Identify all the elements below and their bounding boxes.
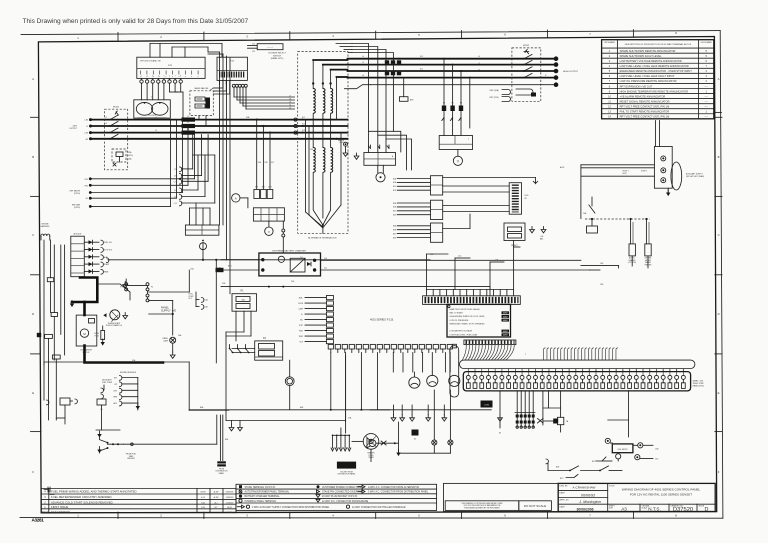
- resistor engine jacket water heater: [645, 244, 652, 268]
- svg-text:4.09: 4.09: [201, 497, 206, 499]
- svg-text:C13: C13: [252, 44, 255, 46]
- svg-text:----: ----: [705, 116, 708, 119]
- svg-text:JCB: JCB: [201, 507, 205, 509]
- svg-text:LOW FUEL LEVEL / FUEL LEAK: LOW FUEL LEVEL / FUEL LEAK: [450, 333, 478, 336]
- svg-text:TEMP: TEMP: [299, 336, 303, 338]
- svg-text:1: 1: [468, 139, 469, 141]
- svg-text:LOW OIL PRESSURE REMOTE ANNUNC: LOW OIL PRESSURE REMOTE ANNUNCIATOR: [620, 79, 677, 83]
- svg-text:ENERGISED / EMER. STOP OPERATE: ENERGISED / EMER. STOP OPERATED: [450, 322, 486, 325]
- fuse below strip: [557, 417, 569, 432]
- svg-text:23 WAY PLUG/SOCKET IN P.C.B.: 23 WAY PLUG/SOCKET IN P.C.B.: [322, 495, 358, 498]
- svg-text:RPT VOLT FREE CONTACT (INTL PI: RPT VOLT FREE CONTACT (INTL PIN 14): [620, 115, 670, 119]
- terminal strip screw squares row: [466, 370, 685, 388]
- svg-text:V: V: [457, 160, 460, 164]
- switch reset pushbutton box: [504, 223, 546, 247]
- svg-text:4: 4: [158, 76, 159, 78]
- wire bus L1: [91, 119, 348, 121]
- svg-text:R2: R2: [452, 103, 454, 105]
- svg-text:----: ----: [705, 85, 708, 88]
- svg-text:L7: L7: [289, 95, 291, 97]
- svg-text:DRN. BY: DRN. BY: [560, 486, 569, 488]
- svg-text:12: 12: [541, 370, 543, 372]
- svg-text:2: 2: [470, 357, 471, 359]
- svg-text:C7C: C7C: [174, 181, 178, 183]
- svg-text:PLUG: PLUG: [95, 335, 100, 337]
- svg-text:OILP: OILP: [299, 342, 303, 344]
- svg-text:R3: R3: [460, 103, 462, 105]
- svg-text:30: 30: [662, 370, 664, 372]
- svg-text:(STUD): (STUD): [74, 193, 80, 195]
- fuse F6 on harness wire: [45, 334, 53, 420]
- wire alternator output L1 to panel: [348, 58, 555, 60]
- svg-text:1: 1: [141, 76, 142, 78]
- svg-text:25: 25: [629, 370, 631, 372]
- svg-text:L3: L3: [155, 130, 157, 132]
- svg-text:18: 18: [582, 370, 584, 372]
- svg-text:LAMP TEST/ HOOT/ FUEL GAUGE: LAMP TEST/ HOOT/ FUEL GAUGE: [450, 308, 481, 311]
- svg-text:VOLTAGE SELECT: VOLTAGE SELECT: [268, 52, 286, 55]
- svg-text:L4: L4: [478, 56, 480, 58]
- wire alternator output L2 to panel: [348, 64, 555, 66]
- wire alternator output L3 to panel: [348, 70, 555, 72]
- svg-text:LOW OIL PRESSURE: LOW OIL PRESSURE: [450, 320, 469, 322]
- svg-text:LS: LS: [100, 409, 103, 411]
- svg-text:5: 5: [706, 50, 708, 53]
- svg-text:LOW BATTERY VOLTAGE: LOW BATTERY VOLTAGE: [450, 330, 473, 333]
- connector RED 10A inside MCB2 zone: [490, 89, 537, 102]
- svg-text:C1A: C1A: [174, 189, 178, 192]
- svg-text:+VE ALARM REMOTE ANNUNCIATOR: +VE ALARM REMOTE ANNUNCIATOR: [620, 94, 666, 98]
- svg-text:C3C: C3C: [655, 459, 659, 461]
- svg-text:3: 3: [44, 496, 46, 499]
- wire duct channel to terminal strip: [460, 360, 695, 368]
- relay P1 box: [232, 290, 257, 312]
- svg-text:LED NUMBER: LED NUMBER: [701, 42, 713, 44]
- wire fuel sender to PCB: [124, 415, 217, 446]
- svg-text:HIGH OUTPUT: HIGH OUTPUT: [563, 71, 579, 73]
- svg-text:HORN: HORN: [298, 303, 304, 305]
- svg-text:14A: 14A: [128, 158, 132, 161]
- fuse F2 panel supply: [146, 283, 153, 302]
- contactor K1 coil box: [364, 153, 396, 166]
- svg-text:C1C: C1C: [174, 203, 178, 205]
- svg-text:3 WAY A.C. CONNECTOR FROM DIST: 3 WAY A.C. CONNECTOR FROM DISTRIBUTION P…: [368, 491, 429, 494]
- svg-text:M: M: [83, 332, 86, 336]
- auxiliary fuel pump group: [97, 379, 113, 412]
- grounds row under gauges: [391, 405, 447, 456]
- wire alternator aux output: [345, 85, 555, 89]
- meter V voltmeter: [265, 221, 273, 235]
- svg-text:A: A: [235, 197, 237, 201]
- svg-text:PIN NUMBER: PIN NUMBER: [604, 42, 615, 44]
- connector box A terminal header 17B: [137, 57, 205, 83]
- svg-text:D37520: D37520: [673, 507, 693, 513]
- svg-text:J. Monington: J. Monington: [578, 500, 601, 504]
- svg-text:14/09/05: 14/09/05: [226, 497, 235, 499]
- table: revision history: [41, 489, 236, 514]
- wire pin table row13 to border: [714, 111, 722, 113]
- svg-text:HARNESS: HARNESS: [41, 225, 50, 228]
- svg-text:STOP SOL: STOP SOL: [104, 250, 112, 252]
- svg-text:C4B: C4B: [218, 268, 221, 270]
- wires windings lower connections: [313, 114, 330, 234]
- svg-text:C2C: C2C: [458, 256, 462, 258]
- svg-text:10: 10: [528, 370, 530, 372]
- connector MF2: [261, 187, 267, 199]
- connector box B PCB header: [217, 57, 247, 87]
- svg-text:B: B: [32, 155, 34, 159]
- svg-text:L9: L9: [289, 101, 291, 103]
- svg-text:3: 3: [706, 75, 708, 78]
- wires economy loop above contactor K1: [368, 131, 411, 170]
- svg-text:F: F: [32, 470, 34, 474]
- svg-text:V: V: [268, 230, 270, 234]
- svg-text:D: D: [718, 312, 720, 316]
- terminal block 38-way strip: [463, 372, 690, 391]
- svg-text:STRT: STRT: [299, 325, 303, 327]
- svg-text:L6: L6: [362, 75, 364, 77]
- svg-text:SUPPLY +VE: SUPPLY +VE: [161, 310, 176, 313]
- svg-text:o: o: [191, 76, 192, 78]
- connector from distribution panel: [216, 415, 229, 475]
- svg-text:FUEL METER: FUEL METER: [617, 449, 628, 451]
- svg-text:HOSP 2: HOSP 2: [641, 171, 647, 173]
- svg-text:OUTPUT: OUTPUT: [69, 128, 78, 130]
- svg-text:PE1: PE1: [85, 179, 88, 181]
- svg-text:RPM: RPM: [113, 397, 117, 399]
- connector LED interface 12way: [509, 183, 529, 215]
- svg-text:3: 3: [152, 76, 153, 78]
- svg-text:L2: L2: [187, 122, 189, 124]
- svg-text:B2C: B2C: [560, 478, 564, 480]
- fuse F4 on harness wire: [47, 278, 53, 313]
- wires box B bundle down to relay block: [208, 52, 230, 294]
- annunciator legend box: [447, 304, 511, 337]
- svg-text:11: 11: [535, 370, 537, 372]
- svg-text:5: 5: [418, 514, 420, 518]
- meter gauge oil pressure: [427, 372, 438, 387]
- svg-text:LED: LED: [525, 195, 529, 197]
- svg-text:DISTRIBUTION PANEL: DISTRIBUTION PANEL: [338, 473, 356, 476]
- svg-text:1: 1: [609, 50, 611, 53]
- svg-text:B1B: B1B: [393, 182, 396, 184]
- svg-text:AUX1: AUX1: [560, 166, 564, 169]
- battery cable to starter: [85, 302, 164, 363]
- node alternator bus terminals SL2 SL1 SL3: [294, 117, 338, 140]
- svg-text:26/09/06: 26/09/06: [226, 492, 235, 494]
- svg-text:A: A: [32, 77, 34, 81]
- meter gauge water temp: [409, 372, 420, 388]
- svg-text:DATE: DATE: [227, 511, 233, 514]
- svg-text:W/L: W/L: [300, 320, 303, 322]
- relay P2 box: [255, 337, 283, 360]
- svg-text:HEAT: HEAT: [104, 270, 108, 273]
- svg-text:B2C: B2C: [393, 211, 397, 213]
- svg-text:PANEL: PANEL: [219, 472, 224, 475]
- wires winding tops to output: [313, 60, 347, 120]
- svg-text:32: 32: [676, 370, 678, 372]
- svg-text:INTERNAL PANEL TERMINAL: INTERNAL PANEL TERMINAL: [245, 500, 278, 503]
- svg-text:MF2: MF2: [262, 187, 265, 189]
- svg-text:----: ----: [705, 105, 708, 108]
- svg-text:13: 13: [608, 111, 611, 114]
- svg-text:MF3: MF3: [268, 187, 271, 189]
- svg-text:C4B: C4B: [600, 284, 604, 286]
- svg-text:21/06/02: 21/06/02: [226, 502, 235, 504]
- svg-text:31: 31: [669, 370, 671, 372]
- wires left harness drops: [44, 240, 65, 365]
- svg-text:START: START: [104, 263, 109, 266]
- wires pin table to aux connector: [656, 121, 660, 147]
- alternator aux winding W4: [313, 148, 315, 173]
- ground aux connector: [666, 188, 670, 196]
- svg-text:C6A: C6A: [583, 212, 587, 215]
- svg-text:SPARE SHUTDOWN REMOTE ANNUNCIA: SPARE SHUTDOWN REMOTE ANNUNCIATOR: [620, 49, 676, 53]
- wires box A top loop: [150, 44, 222, 58]
- connector hooks fuel pump solenoid: [189, 292, 209, 309]
- wire vertical x216 panel feed: [216, 260, 220, 363]
- alternator stator winding W2: [323, 89, 325, 114]
- terminal strip upper comb: [544, 348, 618, 360]
- external battery charger box: [259, 249, 321, 276]
- svg-text:A3: A3: [621, 507, 627, 512]
- svg-text:ADVANCE COLD START SOLENOID RE: ADVANCE COLD START SOLENOID REMOVED: [51, 500, 113, 504]
- svg-text:DATE: DATE: [560, 505, 566, 508]
- regulator AVR dashed box: [190, 87, 213, 126]
- svg-text:30/06/2006: 30/06/2006: [577, 507, 594, 511]
- contact block above A motor: [185, 225, 219, 235]
- wires relays to LED interface: [443, 186, 510, 229]
- svg-text:(SKT): (SKT): [623, 173, 628, 175]
- annunciator pin comb: [464, 340, 516, 345]
- fuse-switch box above battery charger: [253, 208, 284, 221]
- svg-text:D: D: [32, 312, 34, 316]
- svg-text:RPT EXPANSION +VE OUT: RPT EXPANSION +VE OUT: [620, 84, 653, 88]
- svg-text:THIS DRAWING IS COPYRIGHTED AN: THIS DRAWING IS COPYRIGHTED AND MAY BE C…: [461, 502, 503, 505]
- svg-text:CHG: CHG: [113, 390, 117, 392]
- svg-text:2: 2: [160, 35, 162, 39]
- PCB top edge connector strip: [423, 296, 521, 305]
- svg-text:DO NOT SCALE: DO NOT SCALE: [524, 504, 546, 508]
- wire vertical x345 to socket: [345, 355, 347, 433]
- svg-text:FOR 12V KG RENTAL 1100 SERIES: FOR 12V KG RENTAL 1100 SERIES GENSET: [630, 493, 692, 497]
- svg-text:22: 22: [609, 370, 611, 372]
- switch RPT volt-free contact run: [546, 459, 622, 471]
- svg-text:5: 5: [163, 76, 164, 78]
- table: symbol legend: [236, 484, 437, 510]
- connector hooks C1 group: [174, 155, 215, 206]
- svg-text:B: B: [718, 155, 720, 159]
- svg-text:B3C: B3C: [592, 461, 596, 463]
- alternator aux winding W6: [331, 148, 333, 173]
- svg-text:(PANEL MTD): (PANEL MTD): [271, 57, 284, 60]
- connector socket from loom black: [337, 462, 356, 476]
- svg-text:A.JW: A.JW: [214, 491, 219, 494]
- wire D5A drop: [149, 268, 195, 293]
- relay heater plug timer: [352, 434, 379, 460]
- wire long horizontal y421: [226, 420, 346, 422]
- svg-text:STAKE TERMINAL ON P.C.B.: STAKE TERMINAL ON P.C.B.: [245, 486, 276, 489]
- svg-text:4001 SERIES P.C.B.: 4001 SERIES P.C.B.: [370, 318, 394, 322]
- svg-text:C3B: C3B: [655, 448, 659, 450]
- wire harness drop to pump area: [44, 365, 49, 405]
- label terminal strip: [693, 379, 705, 387]
- svg-text:L1: L1: [105, 117, 107, 119]
- svg-text:WIRING DIAGRAM OF 4001 SERIES: WIRING DIAGRAM OF 4001 SERIES CONTROL PA…: [622, 488, 701, 492]
- wires sender loop top: [44, 362, 229, 410]
- svg-text:E: E: [32, 391, 34, 395]
- breaker MCB1 mains isolator: [105, 107, 128, 170]
- svg-text:RST (2/14): RST (2/14): [490, 97, 500, 99]
- svg-text:SOL: SOL: [189, 298, 192, 300]
- table: 24-way terminal block pin functions: [602, 40, 714, 119]
- wire bus L3: [91, 132, 348, 134]
- svg-text:D2A: D2A: [258, 161, 262, 164]
- battery cable heavy positive: [72, 278, 97, 303]
- svg-text:DESCRIPTION OF PIN FUNCTION ON: DESCRIPTION OF PIN FUNCTION ON 24 WAY TE…: [625, 43, 692, 46]
- motor horn bottom-left: [367, 438, 399, 448]
- svg-text:6: 6: [504, 514, 506, 518]
- svg-text:8: 8: [675, 31, 677, 35]
- connector engine senders bracket: [113, 372, 140, 410]
- svg-text:FUEL PRIME WIRING ADDED, AND T: FUEL PRIME WIRING ADDED, AND THERMO STAR…: [51, 490, 137, 494]
- svg-text:LAMP: LAMP: [299, 308, 303, 311]
- svg-text:A3261: A3261: [32, 518, 45, 523]
- svg-text:06/06/93: 06/06/93: [581, 494, 595, 498]
- wire heater return: [581, 263, 619, 270]
- svg-text:5: 5: [706, 55, 708, 58]
- svg-text:EXTERNAL BATTERY CHARGER: EXTERNAL BATTERY CHARGER: [272, 249, 306, 252]
- svg-text:3: 3: [246, 35, 248, 39]
- relay RL1 box: [431, 176, 443, 195]
- svg-text:SIZE: SIZE: [609, 507, 614, 509]
- svg-text:IN INLET MANIFOLD: IN INLET MANIFOLD: [106, 324, 123, 327]
- svg-text:E1: E1: [86, 198, 88, 200]
- wire charger negative long run: [221, 286, 490, 296]
- svg-text:L8: L8: [289, 98, 291, 100]
- svg-text:6: 6: [169, 76, 170, 78]
- svg-text:A.JW: A.JW: [214, 496, 219, 499]
- svg-text:F2: F2: [151, 287, 153, 289]
- svg-text:D5A: D5A: [191, 268, 195, 271]
- wires relay coil feeds: [393, 177, 431, 239]
- switch fuel tank sender float: [97, 431, 136, 460]
- svg-text:I/F: I/F: [525, 198, 528, 200]
- svg-text:1: 1: [77, 36, 79, 40]
- svg-text:SENDER: SENDER: [127, 458, 135, 460]
- svg-text:L1N: L1N: [85, 120, 89, 122]
- svg-text:7: 7: [706, 65, 708, 68]
- svg-text:16: 16: [568, 370, 570, 372]
- svg-text:4: 4: [44, 491, 46, 494]
- svg-text:28: 28: [649, 370, 651, 372]
- svg-text:LOW FUEL LEVEL / FUEL LEAK REM: LOW FUEL LEVEL / FUEL LEAK REMOTE ANNUNC…: [620, 64, 689, 68]
- svg-text:5: 5: [609, 70, 611, 73]
- svg-text:(2/14): (2/14): [128, 155, 133, 157]
- svg-text:C1B: C1B: [174, 197, 177, 199]
- connector auxiliary supply socket: [654, 147, 704, 191]
- svg-text:STUD: STUD: [339, 142, 344, 144]
- svg-text:L6: L6: [478, 69, 480, 71]
- svg-text:SL2: SL2: [420, 56, 423, 58]
- ground engine block: [70, 282, 128, 319]
- svg-text:1: 1: [525, 354, 526, 356]
- svg-text:D5B: D5B: [222, 283, 226, 285]
- svg-text:o: o: [198, 76, 199, 78]
- svg-text:HOSP 1: HOSP 1: [623, 171, 629, 173]
- wire alternator output N to panel: [348, 77, 555, 79]
- svg-text:CUSTOMER POWER CONNECTION: CUSTOMER POWER CONNECTION: [322, 487, 361, 489]
- svg-text:C4B: C4B: [205, 307, 208, 309]
- svg-text:C7A: C7A: [174, 175, 178, 178]
- svg-text:C5A: C5A: [348, 417, 352, 420]
- svg-text:2: 2: [706, 80, 708, 83]
- svg-text:ALM+: ALM+: [299, 297, 303, 300]
- svg-text:BATTERY CHARGER TERMINAL: BATTERY CHARGER TERMINAL: [245, 495, 281, 498]
- svg-text:B3B: B3B: [393, 230, 396, 232]
- svg-text:FUEL: FUEL: [299, 331, 303, 333]
- wires box B to alternator terminals: [234, 87, 295, 109]
- svg-text:ENGINE SENDERS: ENGINE SENDERS: [120, 372, 137, 374]
- relay module stack engine interface: [71, 234, 113, 277]
- svg-text:ENERGISED REMOTE ANNUNCIATOR -: ENERGISED REMOTE ANNUNCIATOR - OVER STOP…: [620, 69, 693, 73]
- svg-text:SPARE SHUTDOWN FAULT LEVEL: SPARE SHUTDOWN FAULT LEVEL: [620, 54, 662, 58]
- alternator stator winding W3: [331, 89, 333, 114]
- wires bottom-left drops to pump: [96, 405, 120, 430]
- svg-text:o: o: [159, 76, 160, 78]
- svg-text:C: C: [32, 233, 34, 237]
- alternator stator winding W1: [313, 89, 315, 114]
- svg-text:14: 14: [608, 116, 611, 119]
- svg-text:7: 7: [609, 80, 611, 83]
- svg-text:C4A: C4A: [205, 299, 209, 302]
- wire RPT to arrow: [443, 178, 538, 184]
- wires C1 verticals to contact block: [190, 203, 211, 225]
- svg-text:7: 7: [175, 76, 176, 78]
- svg-text:11: 11: [608, 100, 611, 103]
- connector bowtie below strip: [538, 419, 559, 424]
- connector engine harness coil: [41, 224, 50, 241]
- svg-text:E2: E2: [414, 439, 416, 441]
- svg-text:B4A: B4A: [200, 406, 204, 409]
- svg-text:D4A: D4A: [178, 334, 182, 337]
- svg-text:17: 17: [575, 370, 577, 372]
- svg-text:(SKT A/3 SKLT REAR): (SKT A/3 SKLT REAR): [686, 175, 704, 178]
- svg-text:LOOM: LOOM: [484, 405, 489, 407]
- svg-text:B3C: B3C: [393, 233, 397, 235]
- svg-text:HIGH ENGINE TEMPERATURE REMOTE: HIGH ENGINE TEMPERATURE REMOTE ANNUNCIAT…: [620, 89, 689, 93]
- svg-text:P2: P2: [263, 337, 267, 340]
- svg-text:P1: P1: [241, 290, 245, 293]
- wire bus L2: [91, 125, 348, 127]
- contactor K2 coil box: [439, 136, 472, 150]
- wire lamp common: [370, 410, 450, 453]
- fuse F5 on harness wire: [51, 313, 57, 361]
- fuse F7 on harness wire: [52, 355, 60, 420]
- svg-text:L5: L5: [289, 104, 291, 106]
- svg-text:AUTOTRANSFORMER PANEL TERMINAL: AUTOTRANSFORMER PANEL TERMINAL: [245, 491, 291, 494]
- node mains input terminals L1 L2 L3 N: [69, 118, 92, 141]
- svg-text:B3D: B3D: [393, 237, 397, 239]
- svg-text:D2C: D2C: [271, 162, 275, 164]
- svg-text:~ ~ ~: ~ ~ ~: [267, 46, 273, 49]
- svg-text:SL1: SL1: [420, 68, 423, 70]
- svg-text:HIGH ENGINE TEMP/LOW COOL LEVE: HIGH ENGINE TEMP/LOW COOL LEVEL: [450, 316, 485, 318]
- alternator terminal box: [298, 52, 348, 240]
- lamp panel lamp 1: [432, 390, 437, 453]
- svg-text:PE2: PE2: [85, 185, 88, 187]
- svg-text:FUEL SOL: FUEL SOL: [104, 242, 112, 244]
